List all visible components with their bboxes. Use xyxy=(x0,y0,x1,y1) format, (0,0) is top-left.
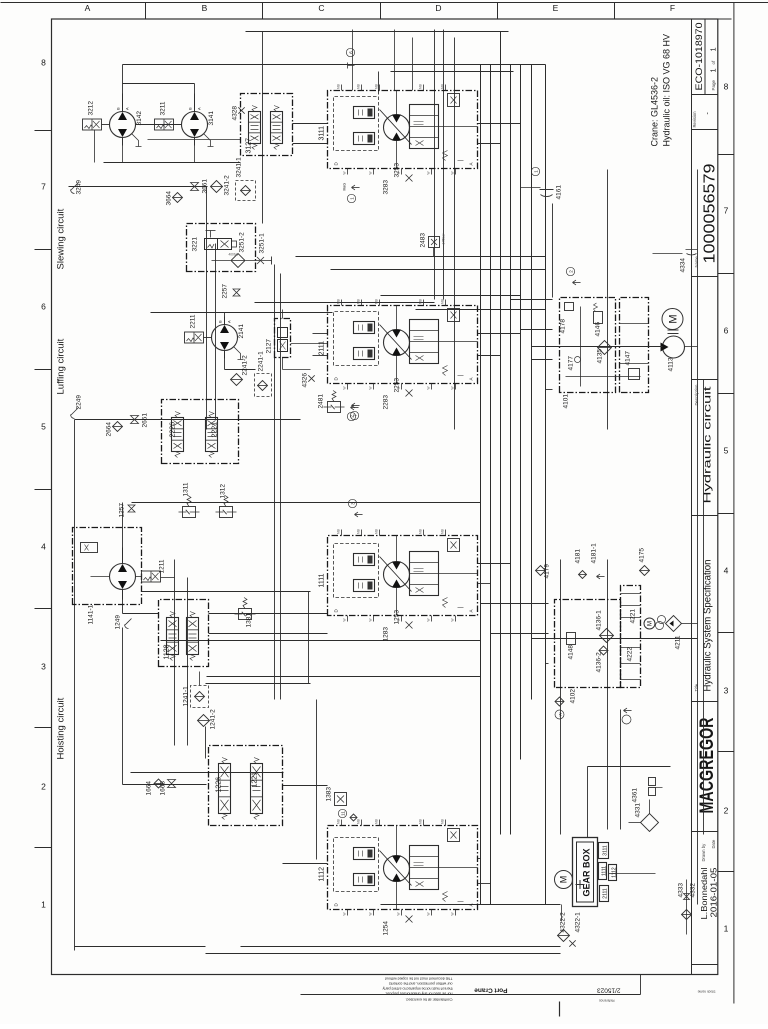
svg-text:2/15023: 2/15023 xyxy=(597,987,621,994)
svg-text:M: M xyxy=(648,621,654,626)
svg-text:1211: 1211 xyxy=(159,559,166,573)
svg-text:1: 1 xyxy=(709,68,718,72)
svg-text:D: D xyxy=(435,3,441,13)
svg-text:3221: 3221 xyxy=(192,237,199,252)
svg-text:4161: 4161 xyxy=(556,185,563,200)
svg-text:A: A xyxy=(469,377,474,380)
svg-text:4326: 4326 xyxy=(302,373,309,388)
svg-text:Page: Page xyxy=(711,79,716,90)
svg-text:A: A xyxy=(197,107,202,110)
svg-text:2481: 2481 xyxy=(318,394,325,409)
svg-text:MB: MB xyxy=(419,84,423,89)
svg-text:4175: 4175 xyxy=(639,548,646,563)
svg-text:Hoisting circuit: Hoisting circuit xyxy=(56,697,67,759)
svg-text:2664: 2664 xyxy=(106,422,113,437)
svg-text:2211: 2211 xyxy=(190,314,197,328)
svg-text:2257: 2257 xyxy=(222,284,229,299)
svg-text:4322-1: 4322-1 xyxy=(575,912,582,933)
svg-text:2: 2 xyxy=(724,806,729,816)
svg-text:Title: Title xyxy=(694,683,699,691)
svg-text:Confidential: all be exercised: Confidential: all be exercised. xyxy=(406,998,453,1002)
svg-text:our written permission, and th: our written permission, and the contents xyxy=(389,982,453,986)
svg-text:4333: 4333 xyxy=(678,883,685,898)
svg-text:8: 8 xyxy=(41,58,46,68)
svg-text:A: A xyxy=(227,320,232,323)
svg-text:3111: 3111 xyxy=(603,845,609,856)
svg-text:W: W xyxy=(451,171,455,174)
svg-text:4101: 4101 xyxy=(563,394,570,409)
svg-text:Slewing circuit: Slewing circuit xyxy=(56,208,67,269)
svg-text:2111: 2111 xyxy=(603,888,609,899)
svg-text:W: W xyxy=(427,912,431,915)
svg-text:MB: MB xyxy=(441,84,445,89)
svg-text:W: W xyxy=(427,618,431,621)
svg-text:1128: 1128 xyxy=(164,644,171,659)
svg-text:4361: 4361 xyxy=(632,788,639,803)
svg-text:4332: 4332 xyxy=(690,883,697,898)
svg-text:MB: MB xyxy=(419,819,423,824)
svg-text:1241-2: 1241-2 xyxy=(210,709,217,730)
svg-text:MB: MB xyxy=(357,84,361,89)
svg-text:1000056579: 1000056579 xyxy=(702,164,719,264)
svg-text:4211: 4211 xyxy=(675,635,682,649)
svg-text:C: C xyxy=(318,3,324,13)
svg-text:W: W xyxy=(397,618,401,621)
svg-text:GEAR BOX: GEAR BOX xyxy=(582,848,592,896)
svg-text:6: 6 xyxy=(41,302,46,312)
svg-text:MB: MB xyxy=(337,84,341,89)
svg-text:Port Crane: Port Crane xyxy=(474,987,508,994)
svg-text:W: W xyxy=(427,171,431,174)
svg-text:4177: 4177 xyxy=(568,356,575,371)
svg-text:2016-01-05: 2016-01-05 xyxy=(709,867,719,917)
svg-text:1249: 1249 xyxy=(115,615,122,630)
svg-text:3142: 3142 xyxy=(136,111,143,126)
svg-text:7: 7 xyxy=(724,206,729,216)
svg-text:M: M xyxy=(667,314,679,323)
svg-text:Reference: Reference xyxy=(599,999,615,1003)
svg-text:3111: 3111 xyxy=(319,126,326,141)
svg-text:W: W xyxy=(397,386,401,389)
svg-text:ECO-1018970: ECO-1018970 xyxy=(694,23,705,91)
svg-text:3211: 3211 xyxy=(160,101,167,115)
svg-text:2226: 2226 xyxy=(170,422,177,438)
svg-text:3661: 3661 xyxy=(202,179,209,194)
svg-text:4178: 4178 xyxy=(560,319,567,334)
svg-text:Description: Description xyxy=(694,384,699,406)
svg-text:A: A xyxy=(469,609,474,612)
svg-text:E: E xyxy=(553,3,559,13)
svg-text:2249: 2249 xyxy=(76,395,83,410)
svg-text:Revision: Revision xyxy=(692,111,697,128)
svg-text:1663: 1663 xyxy=(160,781,167,796)
svg-text:Date: Date xyxy=(711,839,716,849)
svg-text:3127: 3127 xyxy=(246,138,253,154)
svg-text:4322-2: 4322-2 xyxy=(560,912,567,933)
svg-text:MB: MB xyxy=(337,299,341,304)
svg-text:1: 1 xyxy=(709,47,718,51)
svg-text:1381: 1381 xyxy=(246,613,253,628)
svg-text:4181: 4181 xyxy=(575,549,582,564)
svg-text:MB: MB xyxy=(357,819,361,824)
svg-text:Stock name: Stock name xyxy=(697,990,715,994)
svg-text:4136-2: 4136-2 xyxy=(596,652,603,673)
svg-text:B: B xyxy=(218,320,223,323)
svg-text:4328: 4328 xyxy=(232,106,239,121)
svg-text:3241-1: 3241-1 xyxy=(236,157,243,178)
svg-text:A: A xyxy=(85,3,91,13)
svg-text:1221: 1221 xyxy=(252,772,259,788)
svg-text:3241-2: 3241-2 xyxy=(224,175,231,196)
svg-text:3: 3 xyxy=(724,686,729,696)
svg-text:4113: 4113 xyxy=(668,357,675,371)
svg-text:3: 3 xyxy=(41,662,46,672)
svg-text:3251-2: 3251-2 xyxy=(239,232,246,253)
svg-text:5: 5 xyxy=(724,446,729,456)
svg-text:2111: 2111 xyxy=(319,341,326,356)
svg-text:400bar: 400bar xyxy=(229,253,240,257)
svg-text:1283: 1283 xyxy=(383,627,390,642)
svg-text:Luffing circuit: Luffing circuit xyxy=(56,338,67,394)
svg-text:A: A xyxy=(469,162,474,165)
svg-text:2127: 2127 xyxy=(266,339,273,354)
svg-text:W: W xyxy=(451,618,455,621)
svg-text:W: W xyxy=(397,912,401,915)
svg-text:Hydraulic oil: ISO VG 68 HV: Hydraulic oil: ISO VG 68 HV xyxy=(662,34,672,147)
svg-text:MB: MB xyxy=(419,529,423,534)
svg-text:175bar: 175bar xyxy=(442,233,446,245)
svg-text:3251-1: 3251-1 xyxy=(259,233,266,254)
svg-text:1241-1: 1241-1 xyxy=(183,686,190,707)
svg-text:Name: Name xyxy=(694,256,699,268)
svg-text:MB: MB xyxy=(441,529,445,534)
svg-text:MB: MB xyxy=(419,299,423,304)
svg-text:W: W xyxy=(369,386,373,389)
svg-text:1311: 1311 xyxy=(183,482,190,496)
svg-text:11: 11 xyxy=(340,811,345,816)
svg-text:2221: 2221 xyxy=(212,422,219,438)
svg-text:4148: 4148 xyxy=(568,645,575,660)
svg-text:W: W xyxy=(369,618,373,621)
svg-text:B: B xyxy=(202,3,208,13)
svg-text:3664: 3664 xyxy=(166,191,173,206)
svg-text:1664: 1664 xyxy=(146,781,153,796)
svg-text:1112: 1112 xyxy=(319,867,326,882)
svg-text:7: 7 xyxy=(41,182,46,192)
svg-text:5: 5 xyxy=(41,422,46,432)
svg-text:1111: 1111 xyxy=(602,866,608,876)
svg-text:W: W xyxy=(343,171,347,174)
svg-text:4221: 4221 xyxy=(630,609,637,624)
svg-text:F: F xyxy=(670,3,675,13)
svg-text:MACGREGOR: MACGREGOR xyxy=(697,717,718,813)
svg-text:1141-1: 1141-1 xyxy=(88,604,95,624)
svg-text:MB: MB xyxy=(441,819,445,824)
svg-text:4102: 4102 xyxy=(570,689,577,704)
svg-text:W: W xyxy=(427,386,431,389)
svg-text:W: W xyxy=(558,712,563,716)
svg-text:W: W xyxy=(451,912,455,915)
svg-text:1383: 1383 xyxy=(326,787,333,802)
svg-text:Hydraulic System Specification: Hydraulic System Specification xyxy=(703,560,714,692)
svg-text:3249: 3249 xyxy=(76,180,83,195)
svg-text:3141: 3141 xyxy=(208,111,215,126)
svg-text:MB: MB xyxy=(375,819,379,824)
svg-text:W: W xyxy=(343,618,347,621)
svg-text:A: A xyxy=(469,903,474,906)
svg-text:4135: 4135 xyxy=(597,349,604,364)
svg-text:MB: MB xyxy=(357,299,361,304)
svg-text:Crane: GL4536-2: Crane: GL4536-2 xyxy=(650,77,660,147)
svg-text:4222: 4222 xyxy=(627,647,634,662)
svg-text:8: 8 xyxy=(724,82,729,92)
svg-text:L.Bonnedahl: L.Bonnedahl xyxy=(699,867,709,919)
svg-text:2241-1: 2241-1 xyxy=(258,351,265,372)
svg-text:4136-1: 4136-1 xyxy=(596,610,603,631)
svg-text:1112: 1112 xyxy=(612,867,618,878)
svg-text:4181-1: 4181-1 xyxy=(591,543,598,564)
svg-text:4: 4 xyxy=(41,542,46,552)
svg-text:6: 6 xyxy=(724,326,729,336)
svg-text:W: W xyxy=(397,171,401,174)
svg-text:3212: 3212 xyxy=(88,101,95,116)
svg-text:W: W xyxy=(343,386,347,389)
svg-text:MB: MB xyxy=(337,529,341,534)
svg-text:4334: 4334 xyxy=(680,258,687,273)
svg-text:2661: 2661 xyxy=(142,413,149,428)
svg-text:1111: 1111 xyxy=(319,573,326,587)
svg-text:MB: MB xyxy=(375,529,379,534)
svg-text:MB: MB xyxy=(441,299,445,304)
svg-text:W: W xyxy=(451,386,455,389)
svg-text:MB: MB xyxy=(337,819,341,824)
svg-text:MB: MB xyxy=(375,299,379,304)
svg-text:Drawn by: Drawn by xyxy=(701,843,706,862)
svg-text:2241-2: 2241-2 xyxy=(242,355,249,376)
svg-text:2: 2 xyxy=(41,782,46,792)
svg-text:4331: 4331 xyxy=(635,803,642,818)
svg-text:W: W xyxy=(343,912,347,915)
svg-text:1312: 1312 xyxy=(220,484,227,499)
svg-text:W: W xyxy=(369,171,373,174)
svg-text:1: 1 xyxy=(41,900,46,910)
svg-text:1: 1 xyxy=(724,924,729,934)
svg-text:MB: MB xyxy=(357,529,361,534)
svg-text:thereof must not be imparted t: thereof must not be imparted to a third … xyxy=(382,987,452,991)
svg-text:1254: 1254 xyxy=(383,921,390,936)
svg-text:4: 4 xyxy=(724,566,729,576)
svg-text:2141: 2141 xyxy=(238,324,245,339)
svg-text:2483: 2483 xyxy=(420,233,427,248)
svg-text:MB: MB xyxy=(375,84,379,89)
svg-text:This document must not be copi: This document must not be copied without xyxy=(385,977,452,981)
svg-text:M: M xyxy=(559,876,569,884)
svg-text:1257: 1257 xyxy=(119,503,126,518)
svg-text:2283: 2283 xyxy=(383,395,390,410)
svg-text:B: B xyxy=(188,107,193,110)
svg-text:B: B xyxy=(116,107,121,110)
svg-text:MaG: MaG xyxy=(343,183,347,191)
svg-text:A: A xyxy=(125,107,130,110)
svg-text:3283: 3283 xyxy=(383,180,390,195)
svg-text:W: W xyxy=(369,912,373,915)
svg-text:1226: 1226 xyxy=(216,777,223,793)
